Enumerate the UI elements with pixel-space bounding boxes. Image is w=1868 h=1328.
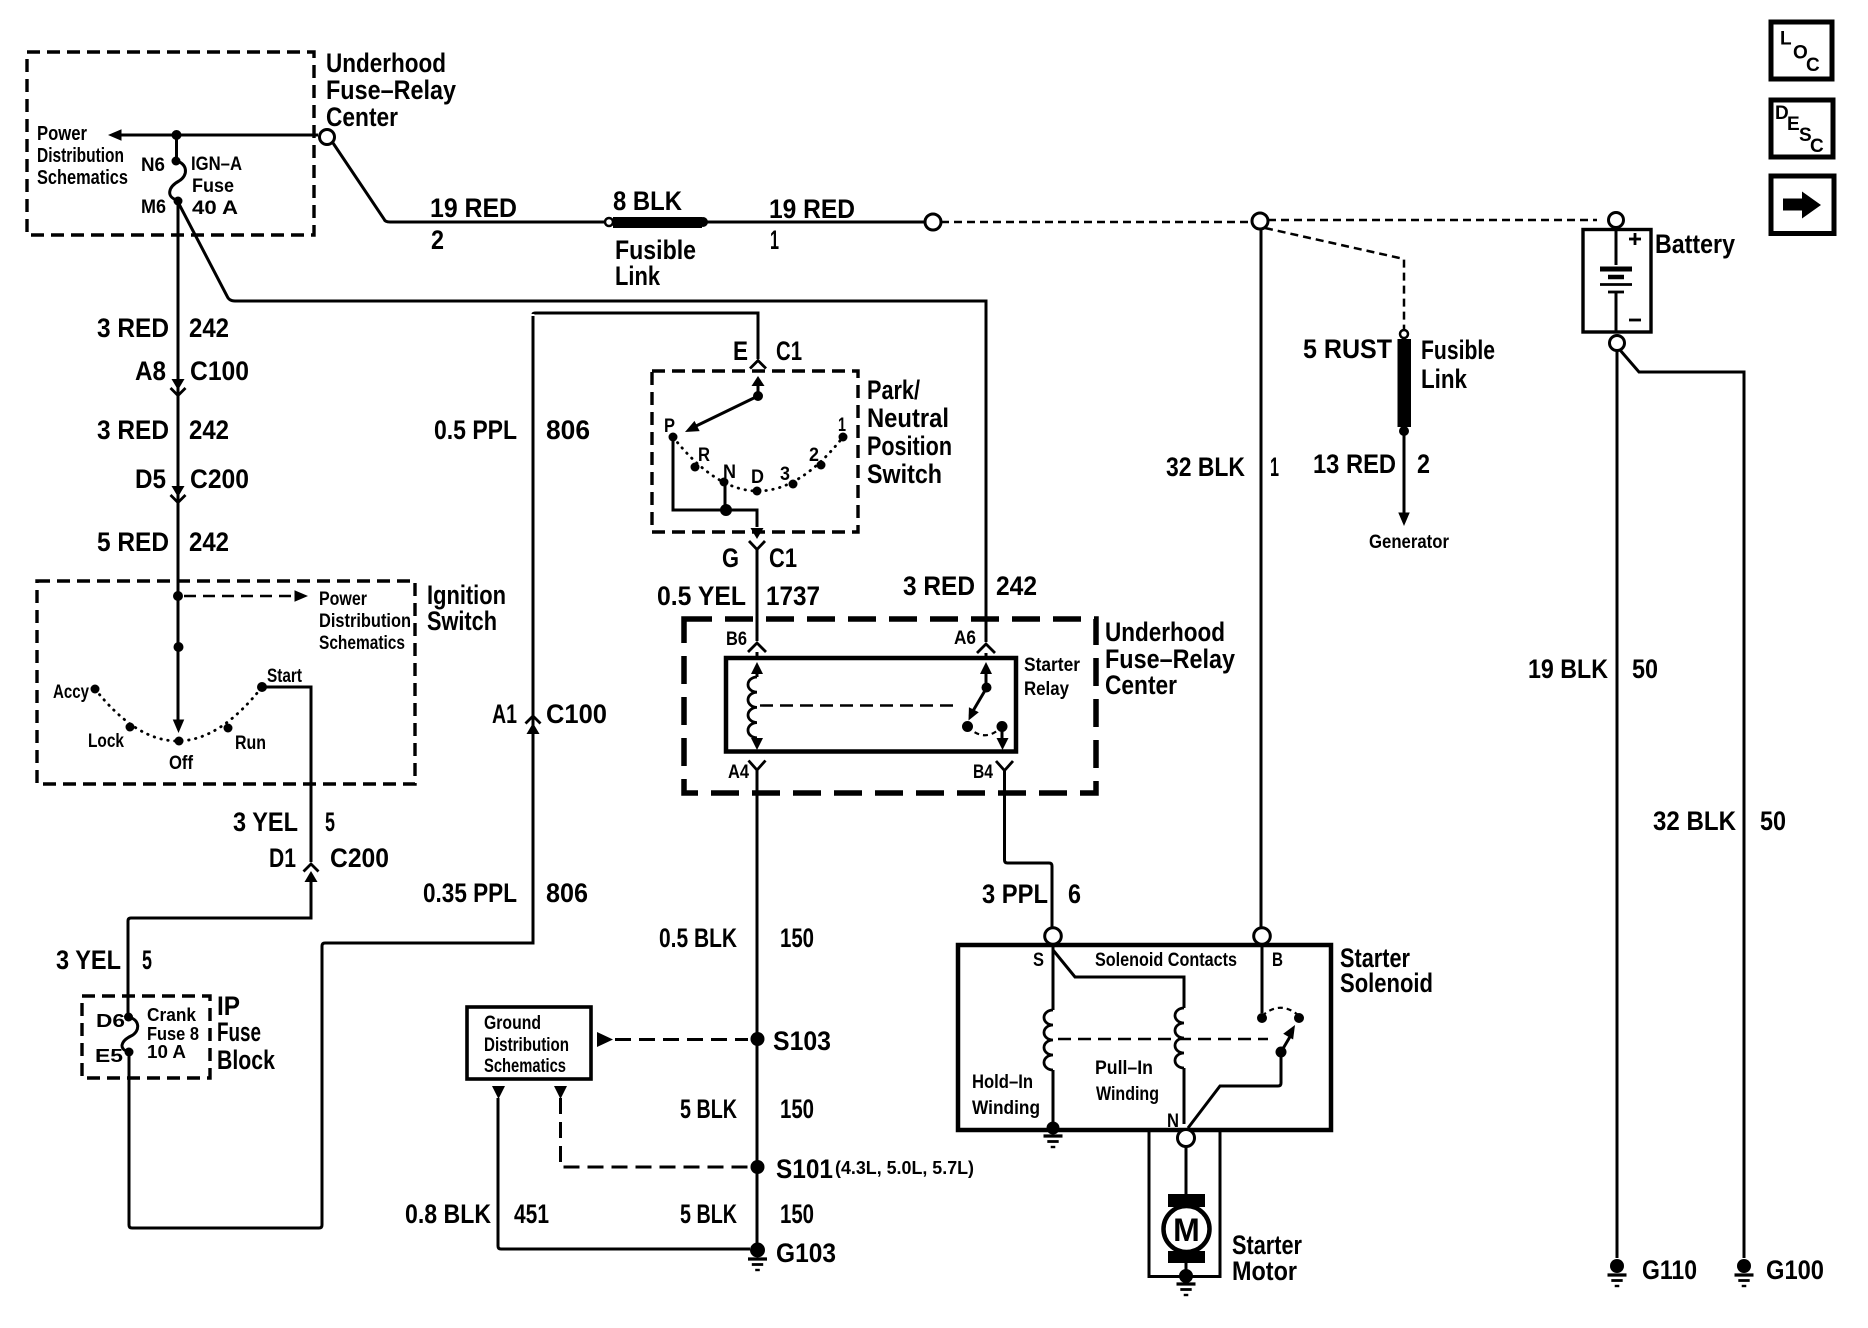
svg-text:806: 806 <box>546 415 590 445</box>
svg-text:A4: A4 <box>728 761 749 783</box>
svg-text:Switch: Switch <box>427 606 497 636</box>
svg-text:19 RED: 19 RED <box>430 193 517 223</box>
svg-text:Fuse: Fuse <box>217 1017 261 1047</box>
svg-text:D1: D1 <box>269 843 296 873</box>
svg-text:R: R <box>698 444 710 466</box>
svg-text:D5: D5 <box>135 464 166 494</box>
svg-text:Fuse 8: Fuse 8 <box>147 1024 199 1044</box>
svg-text:N: N <box>723 461 736 483</box>
svg-text:Power: Power <box>319 588 367 610</box>
svg-text:A8: A8 <box>135 356 166 386</box>
svg-text:Underhood: Underhood <box>326 48 446 78</box>
svg-text:Link: Link <box>615 261 661 291</box>
svg-text:Underhood: Underhood <box>1105 617 1225 647</box>
svg-text:Run: Run <box>235 732 266 754</box>
svg-text:N6: N6 <box>141 154 165 176</box>
svg-text:M: M <box>1173 1212 1200 1248</box>
svg-text:1737: 1737 <box>766 581 820 611</box>
svg-text:3: 3 <box>780 463 790 485</box>
svg-text:S103: S103 <box>773 1026 831 1056</box>
svg-text:Distribution: Distribution <box>37 145 124 167</box>
svg-text:Fuse: Fuse <box>192 175 234 197</box>
svg-text:B: B <box>1272 949 1283 971</box>
svg-text:Pull–In: Pull–In <box>1095 1057 1153 1079</box>
svg-text:(4.3L, 5.0L, 5.7L): (4.3L, 5.0L, 5.7L) <box>835 1158 974 1178</box>
svg-text:Ground: Ground <box>484 1012 541 1034</box>
svg-text:13 RED: 13 RED <box>1313 449 1396 479</box>
svg-text:Motor: Motor <box>1232 1256 1297 1286</box>
svg-text:19 RED: 19 RED <box>769 194 855 224</box>
svg-text:0.35 PPL: 0.35 PPL <box>423 878 517 908</box>
svg-text:Block: Block <box>217 1045 276 1075</box>
svg-text:D6: D6 <box>96 1011 125 1031</box>
svg-text:A1: A1 <box>492 699 517 729</box>
svg-text:8 BLK: 8 BLK <box>613 186 682 216</box>
svg-text:6: 6 <box>1068 879 1081 909</box>
svg-text:5: 5 <box>142 945 152 975</box>
svg-text:Center: Center <box>1105 670 1177 700</box>
svg-text:242: 242 <box>189 415 229 445</box>
svg-text:1: 1 <box>1270 452 1279 482</box>
svg-text:Link: Link <box>1421 364 1468 394</box>
svg-text:Schematics: Schematics <box>319 632 405 654</box>
svg-text:Distribution: Distribution <box>319 610 411 632</box>
svg-text:Off: Off <box>169 752 193 774</box>
svg-text:G110: G110 <box>1642 1255 1697 1285</box>
svg-text:A6: A6 <box>954 627 976 649</box>
svg-text:L: L <box>1780 29 1792 50</box>
svg-text:806: 806 <box>546 878 588 908</box>
svg-text:5 BLK: 5 BLK <box>680 1094 737 1124</box>
svg-text:Winding: Winding <box>972 1097 1040 1119</box>
svg-text:Battery: Battery <box>1655 229 1735 259</box>
svg-text:3 YEL: 3 YEL <box>56 945 121 975</box>
svg-text:3 RED: 3 RED <box>97 415 169 445</box>
svg-text:S101: S101 <box>776 1154 833 1184</box>
svg-text:Center: Center <box>326 102 398 132</box>
svg-text:Crank: Crank <box>147 1005 197 1025</box>
svg-text:5: 5 <box>325 807 335 837</box>
svg-text:Fusible: Fusible <box>1421 335 1495 365</box>
svg-text:D: D <box>751 466 764 488</box>
svg-text:Schematics: Schematics <box>484 1055 566 1077</box>
svg-text:Accy: Accy <box>53 681 89 703</box>
svg-text:150: 150 <box>780 1094 814 1124</box>
svg-text:B6: B6 <box>726 628 747 650</box>
svg-text:Lock: Lock <box>88 730 124 752</box>
svg-text:Winding: Winding <box>1096 1083 1159 1105</box>
svg-text:Start: Start <box>267 665 302 687</box>
svg-text:C200: C200 <box>190 464 249 494</box>
svg-text:C: C <box>1810 136 1824 157</box>
svg-text:Distribution: Distribution <box>484 1034 569 1056</box>
svg-text:50: 50 <box>1632 654 1658 684</box>
svg-text:E5: E5 <box>95 1046 123 1066</box>
svg-text:32 BLK: 32 BLK <box>1653 806 1736 836</box>
svg-text:0.5 YEL: 0.5 YEL <box>657 581 746 611</box>
svg-text:2: 2 <box>431 225 444 255</box>
svg-text:0.5 PPL: 0.5 PPL <box>434 415 517 445</box>
svg-text:N: N <box>1167 1110 1179 1132</box>
svg-text:32 BLK: 32 BLK <box>1166 452 1245 482</box>
svg-text:3 RED: 3 RED <box>97 313 169 343</box>
svg-text:P: P <box>664 415 675 437</box>
svg-text:3 YEL: 3 YEL <box>233 807 298 837</box>
svg-text:S: S <box>1033 949 1044 971</box>
svg-text:Neutral: Neutral <box>867 403 949 433</box>
svg-text:G100: G100 <box>1766 1255 1824 1285</box>
svg-text:B4: B4 <box>973 761 993 783</box>
svg-text:5 RED: 5 RED <box>97 527 169 557</box>
svg-text:150: 150 <box>780 923 814 953</box>
svg-text:Starter: Starter <box>1024 654 1080 676</box>
svg-text:Power: Power <box>37 123 87 145</box>
svg-text:Position: Position <box>867 431 952 461</box>
svg-text:Relay: Relay <box>1024 678 1069 700</box>
svg-text:2: 2 <box>809 444 819 466</box>
svg-text:1: 1 <box>770 225 779 255</box>
svg-text:Solenoid Contacts: Solenoid Contacts <box>1095 949 1237 971</box>
svg-text:242: 242 <box>996 571 1037 601</box>
svg-text:242: 242 <box>189 527 229 557</box>
svg-text:C: C <box>1806 55 1820 76</box>
svg-text:5 BLK: 5 BLK <box>680 1199 737 1229</box>
svg-text:2: 2 <box>1417 449 1430 479</box>
svg-text:Generator: Generator <box>1369 531 1449 553</box>
svg-text:C1: C1 <box>769 543 797 573</box>
svg-text:150: 150 <box>780 1199 814 1229</box>
svg-text:1: 1 <box>838 414 846 436</box>
svg-text:10 A: 10 A <box>147 1042 186 1062</box>
svg-text:Schematics: Schematics <box>37 167 128 189</box>
svg-text:Fuse–Relay: Fuse–Relay <box>326 75 456 105</box>
svg-text:40 A: 40 A <box>192 197 238 219</box>
svg-text:Park/: Park/ <box>867 375 920 405</box>
svg-text:M6: M6 <box>141 196 166 218</box>
svg-text:C100: C100 <box>546 699 607 729</box>
svg-text:IGN–A: IGN–A <box>191 153 242 175</box>
svg-text:451: 451 <box>514 1199 549 1229</box>
svg-text:Switch: Switch <box>867 459 942 489</box>
svg-text:19 BLK: 19 BLK <box>1528 654 1608 684</box>
svg-text:E: E <box>1787 114 1800 135</box>
svg-text:Solenoid: Solenoid <box>1340 968 1433 998</box>
svg-text:C1: C1 <box>776 336 802 366</box>
svg-text:242: 242 <box>189 313 229 343</box>
svg-text:Hold–In: Hold–In <box>972 1071 1033 1093</box>
svg-text:G103: G103 <box>776 1238 836 1268</box>
svg-text:E: E <box>733 336 748 366</box>
svg-text:C200: C200 <box>330 843 389 873</box>
svg-text:3 PPL: 3 PPL <box>982 879 1048 909</box>
svg-text:C100: C100 <box>190 356 249 386</box>
svg-text:0.8 BLK: 0.8 BLK <box>405 1199 491 1229</box>
svg-text:0.5 BLK: 0.5 BLK <box>659 923 737 953</box>
svg-text:5 RUST: 5 RUST <box>1303 334 1392 364</box>
svg-text:3 RED: 3 RED <box>903 571 975 601</box>
svg-text:G: G <box>722 543 739 573</box>
svg-text:50: 50 <box>1760 806 1786 836</box>
